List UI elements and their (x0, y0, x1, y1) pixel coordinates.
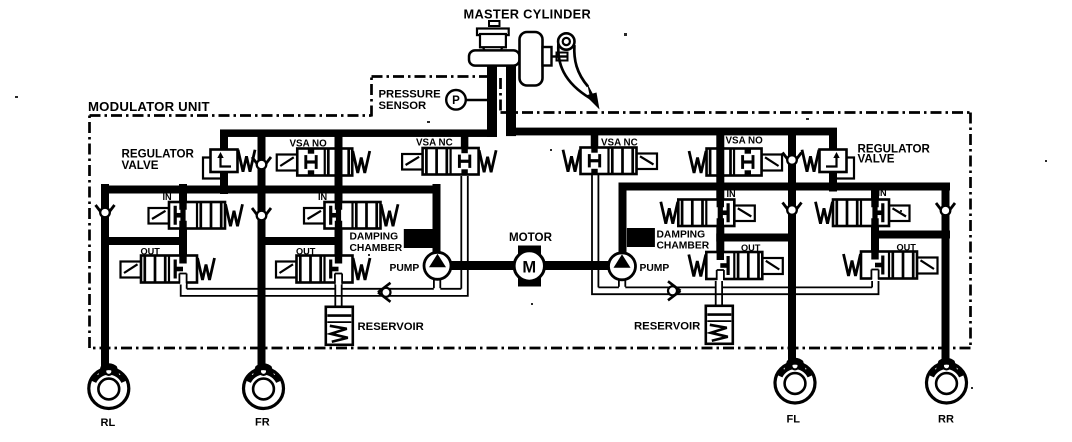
check valve on left return pipe (pump suction) (378, 283, 391, 302)
wheel RR with brake caliper (927, 358, 967, 426)
label IN RR (878, 188, 888, 198)
svg-text:RESERVOIR: RESERVOIR (358, 321, 424, 333)
scan speckle dots (15, 33, 1047, 389)
svg-text:FL: FL (787, 414, 801, 426)
svg-text:DAMPING: DAMPING (350, 232, 399, 243)
wheel FL with brake caliper (775, 358, 815, 426)
pump left (424, 252, 451, 279)
wire: left pump suction stub (hollow) (434, 278, 440, 288)
wire: regulator-R upper stub (829, 129, 837, 152)
wire: right secondary bus (bus2-R) (619, 183, 951, 191)
label MODULATOR UNIT (88, 99, 210, 114)
svg-text:M: M (522, 258, 536, 276)
solenoid valve OUT RL (121, 254, 215, 285)
reservoir left (326, 307, 353, 345)
wire: right reservoir inlet tube (hollow) (716, 281, 722, 309)
wire: regulator-L upper stub (220, 130, 228, 152)
label PUMP left (390, 263, 420, 274)
check valve beside regulator left (252, 157, 271, 170)
label DAMPING CHAMBER right (657, 229, 710, 251)
label VSA NO right (726, 136, 764, 147)
svg-text:IN: IN (878, 188, 888, 198)
wire: right return pipe (hollow) from OUT valves to reservoir and pump suction (592, 175, 879, 294)
label IN FL (727, 189, 737, 199)
wire: regulator-R lower stub to bus2-R (829, 171, 837, 192)
wire: bus2-R corner down to right pump (619, 184, 627, 255)
solenoid valve OUT FL (689, 251, 783, 282)
svg-text:FR: FR (255, 417, 270, 429)
label VSA NC right (601, 137, 638, 148)
svg-text:OUT: OUT (141, 247, 161, 257)
pump right (609, 253, 636, 280)
label MASTER CYLINDER (464, 7, 592, 22)
svg-text:OUT: OUT (897, 243, 917, 253)
wire: pump-motor-pump drive line (449, 261, 610, 270)
solenoid valve IN RL (149, 201, 243, 231)
wire: VSA NC-L inlet stub from bus1-L (461, 130, 469, 154)
label RESERVOIR left (358, 321, 424, 333)
check valve RL (bypass of IN-RL) (96, 205, 115, 218)
solenoid valve OUT RR (844, 250, 938, 281)
solenoid valve VSA NO left (277, 147, 370, 177)
svg-text:VALVE: VALVE (858, 152, 895, 165)
wire: right pump suction stub (hollow) (619, 278, 625, 287)
label IN RL (163, 192, 173, 202)
label OUT FL (741, 243, 761, 253)
svg-text:PUMP: PUMP (390, 263, 420, 274)
svg-text:RR: RR (938, 414, 954, 426)
solenoid valve OUT FR (276, 254, 370, 285)
svg-text:IN: IN (318, 192, 328, 202)
modulator unit enclosure (dashed border) (90, 77, 971, 349)
check valve FR (bypass of IN-FR) (252, 208, 271, 221)
wire: VSA NC-R inlet stub from bus1-R (591, 129, 599, 153)
wire: bus3-FR between IN/OUT valves FR (258, 237, 343, 245)
wheel RL with brake caliper (89, 363, 129, 429)
solenoid valve VSA NO right (689, 147, 782, 177)
solenoid valve VSA NC right (563, 148, 657, 175)
svg-text:MASTER CYLINDER: MASTER CYLINDER (464, 7, 592, 22)
svg-text:IN: IN (163, 192, 173, 202)
wire: bus2-L corner down to left pump (433, 184, 441, 254)
wire: regulator-L lower stub to bus2-L (220, 171, 228, 195)
solenoid valve IN FR (304, 201, 398, 231)
label REGULATOR VALVE right (858, 142, 931, 165)
regulator valve right (802, 150, 854, 179)
svg-text:OUT: OUT (296, 247, 316, 257)
label OUT RL (141, 247, 161, 257)
solenoid valve IN RR (816, 198, 910, 228)
check valve on right return pipe (pump suction) (668, 281, 681, 300)
wire: column through IN-RL and OUT-RL valves (179, 184, 187, 283)
check valve RR (bypass of IN-RR) (936, 203, 955, 216)
svg-text:VALVE: VALVE (122, 159, 159, 172)
label PRESSURE SENSOR (379, 89, 442, 112)
svg-text:VSA NC: VSA NC (416, 137, 453, 148)
master cylinder assembly (469, 21, 568, 137)
svg-text:MOTOR: MOTOR (509, 231, 553, 244)
svg-text:PUMP: PUMP (640, 263, 670, 274)
label PUMP right (640, 263, 670, 274)
wire: bus3-RL between IN/OUT valves RL (101, 237, 187, 245)
svg-text:VSA NO: VSA NO (290, 139, 328, 150)
svg-text:RL: RL (101, 417, 116, 429)
wire: right supply bus from master cylinder (bus1-R) (506, 128, 837, 136)
label IN FR (318, 192, 328, 202)
brake pedal (558, 33, 599, 109)
wire: column through IN-RR and OUT-RR valves (871, 184, 879, 279)
wire: FL wheel line with check valves (788, 129, 796, 367)
label RESERVOIR right (634, 321, 700, 333)
check valve FL (bypass of IN-FL) (783, 203, 802, 216)
wire: left secondary bus (bus2-L) (101, 186, 441, 194)
check valve beside regulator right (783, 153, 802, 166)
wire: RL wheel line with check valve (101, 184, 109, 369)
svg-text:PRESSURE: PRESSURE (379, 89, 442, 101)
solenoid valve IN FL (661, 198, 755, 228)
wire: column through VSA NO-R, IN-FL, OUT-FL (716, 129, 724, 280)
wire: left return pipe (hollow) from OUT valves to reservoir and pump suction (181, 176, 468, 296)
svg-text:IN: IN (727, 189, 737, 199)
label OUT FR (296, 247, 316, 257)
svg-text:DAMPING: DAMPING (657, 229, 706, 240)
svg-text:CHAMBER: CHAMBER (350, 243, 403, 254)
svg-text:P: P (452, 95, 460, 107)
label REGULATOR VALVE left (122, 148, 195, 173)
motor M (514, 246, 544, 287)
label DAMPING CHAMBER left (350, 232, 403, 255)
label VSA NO left (290, 139, 328, 150)
svg-text:RESERVOIR: RESERVOIR (634, 321, 700, 333)
wire: bus3-FL between IN/OUT valves FL (716, 234, 793, 242)
wire: left reservoir inlet tube (hollow) (335, 283, 341, 311)
wire: column through VSA NO-L, IN-FR, OUT-FR (335, 130, 343, 283)
svg-text:MODULATOR UNIT: MODULATOR UNIT (88, 99, 210, 114)
regulator valve left (203, 150, 255, 179)
svg-text:CHAMBER: CHAMBER (657, 241, 710, 252)
wire: bus3-RR between IN/OUT valves RR (871, 231, 950, 239)
reservoir right (706, 306, 733, 344)
svg-text:VSA NO: VSA NO (726, 136, 764, 147)
svg-text:VSA NC: VSA NC (601, 137, 638, 148)
label MOTOR (509, 231, 553, 244)
wire: RR wheel line with check valve (942, 184, 950, 366)
damping chamber left (404, 229, 434, 248)
label OUT RR (897, 243, 917, 253)
svg-text:OUT: OUT (741, 243, 761, 253)
wire: left supply bus from master cylinder (bus1-L) (220, 129, 497, 137)
svg-text:SENSOR: SENSOR (379, 100, 427, 112)
damping chamber right (627, 228, 655, 247)
solenoid valve VSA NC left (402, 148, 496, 175)
label VSA NC left (416, 137, 453, 148)
wire: FR wheel line with check valves (258, 130, 266, 370)
pressure sensor P (446, 90, 488, 110)
wheel FR with brake caliper (244, 363, 284, 428)
